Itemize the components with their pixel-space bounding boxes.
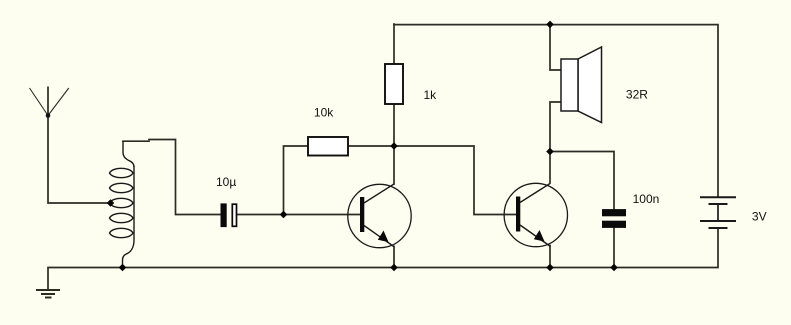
svg-text:100n: 100n [633, 192, 660, 206]
svg-text:3V: 3V [752, 209, 767, 223]
svg-text:10k: 10k [314, 106, 334, 120]
svg-text:1k: 1k [424, 88, 438, 102]
svg-text:10µ: 10µ [216, 175, 236, 189]
svg-text:32R: 32R [626, 88, 648, 102]
